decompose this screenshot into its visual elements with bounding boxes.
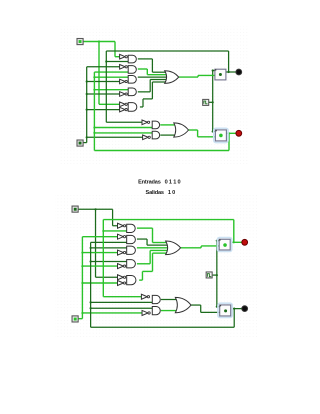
wire: [82, 282, 117, 284]
wire: [161, 299, 177, 301]
wire: [87, 81, 120, 83]
wire: [93, 72, 95, 150]
node junction: [212, 69, 214, 71]
AND gate A1.2: [128, 66, 136, 74]
AND gate A1.3: [128, 76, 136, 84]
wire: [91, 307, 153, 309]
LED on: [242, 239, 248, 245]
node junction: [93, 126, 95, 128]
wire: [141, 271, 143, 280]
wire: [213, 70, 215, 72]
node junction: [93, 132, 95, 134]
node junction: [81, 251, 83, 253]
wire: [161, 310, 177, 312]
wire: [160, 124, 175, 126]
wire: [153, 242, 168, 244]
inverter N2.2: [118, 234, 124, 239]
wire: [228, 51, 230, 72]
wire: [216, 241, 218, 307]
wire: [137, 247, 168, 249]
wire: [226, 132, 236, 134]
wire: [200, 246, 202, 248]
wire: [233, 220, 235, 243]
node junction: [93, 76, 95, 78]
node junction: [90, 301, 92, 303]
wire: [201, 311, 220, 313]
node junction: [212, 130, 214, 132]
input pin: [77, 140, 83, 146]
wire: [179, 76, 198, 78]
node junction: [90, 260, 92, 262]
node junction: [228, 71, 230, 73]
wire: [152, 71, 166, 73]
node junction: [212, 101, 214, 103]
AND gate A2.1: [127, 224, 136, 232]
wire: [150, 79, 167, 81]
wire: [81, 237, 83, 319]
wire: [87, 109, 120, 111]
clock: [206, 272, 212, 278]
wire: [94, 132, 152, 134]
wire: [113, 225, 118, 227]
OR gate OR2.2: [175, 297, 191, 312]
inverter N2.4: [118, 264, 124, 269]
node junction: [81, 312, 83, 314]
wire: [147, 74, 167, 76]
OR gate OR2.1: [166, 241, 181, 255]
wire: [105, 51, 107, 122]
wire: [142, 99, 144, 107]
input pin: [77, 39, 83, 45]
wire: [82, 312, 142, 314]
inverter N1.3: [120, 79, 126, 84]
wire: [138, 68, 148, 70]
wire: [83, 41, 115, 43]
wire: [139, 279, 142, 281]
wire: [152, 228, 154, 242]
wire: [151, 59, 153, 72]
wire: [146, 239, 148, 245]
flip-flop box: [214, 128, 228, 142]
wire: [201, 245, 219, 247]
wire: [94, 71, 128, 73]
node junction: [90, 307, 92, 309]
wire: [91, 260, 127, 262]
wire: [103, 219, 233, 221]
wire: [82, 252, 117, 254]
OR gate OR1.2: [174, 123, 189, 137]
inverter N1.5: [120, 102, 126, 107]
wire: [147, 244, 168, 246]
node junction: [86, 80, 88, 82]
wire: [142, 270, 152, 272]
node junction: [216, 306, 218, 308]
wire: [213, 131, 216, 133]
wire: [137, 263, 150, 265]
AND gate A1.6: [152, 121, 159, 129]
wire: [78, 318, 82, 320]
node junction: [216, 240, 218, 242]
wire: [149, 250, 151, 263]
wire: [160, 134, 175, 136]
wire: [197, 130, 199, 137]
AND gate A1.4: [128, 88, 136, 96]
canvas grid circuit 1: [60, 26, 248, 164]
node junction: [233, 241, 235, 243]
wire: [189, 129, 198, 131]
wire: [112, 209, 114, 225]
wire: [99, 103, 120, 105]
LED on: [236, 130, 242, 136]
AND gate A1.1: [128, 55, 136, 63]
wire: [87, 136, 143, 138]
svg-text:Entradas 0 1 1 0: Entradas 0 1 1 0: [138, 179, 180, 185]
node junction: [233, 308, 235, 310]
wire: [153, 252, 168, 254]
flip-flop box: [215, 69, 226, 80]
inverter N2.3: [118, 250, 124, 255]
AND gate A2.6: [152, 295, 160, 303]
wire: [95, 209, 97, 277]
wire: [197, 75, 199, 77]
wire: [191, 304, 201, 306]
node junction: [93, 89, 95, 91]
inverter N2.1: [118, 223, 124, 228]
wire: [198, 136, 216, 138]
inverter N1.8: [143, 135, 149, 140]
node junction: [81, 282, 83, 284]
wire: [103, 230, 126, 232]
wire: [150, 249, 168, 251]
node junction: [105, 60, 107, 62]
wire: [213, 274, 217, 276]
node junction: [86, 136, 88, 138]
node junction: [86, 93, 88, 95]
node junction: [98, 40, 100, 42]
OR gate OR1.1: [165, 71, 179, 84]
wire: [86, 67, 88, 143]
wire: [82, 265, 117, 267]
wire: [87, 93, 120, 95]
node junction: [86, 109, 88, 111]
wire: [94, 127, 152, 129]
AND gate A2.4: [127, 260, 136, 268]
wire: [90, 242, 92, 327]
wire: [78, 208, 112, 210]
wire: [94, 89, 128, 91]
wire: [146, 69, 148, 75]
AND gate A1.5: [128, 103, 137, 112]
wire: [226, 71, 236, 73]
wire: [106, 50, 228, 52]
inverter N2.5: [118, 275, 124, 280]
wire: [82, 236, 117, 238]
wire: [231, 308, 241, 310]
flip-flop box: [218, 303, 232, 317]
wire: [151, 82, 153, 99]
flip-flop box: [217, 238, 231, 252]
wire: [96, 276, 118, 278]
AND gate A1.7: [152, 131, 159, 139]
node junction: [102, 230, 104, 232]
inverter N1.4: [120, 92, 126, 97]
wire: [181, 247, 202, 249]
wire: [114, 42, 116, 57]
wire: [115, 56, 120, 58]
wire: [212, 71, 214, 132]
wire: [152, 81, 166, 83]
wire: [231, 241, 242, 243]
wire: [91, 326, 235, 328]
wire: [217, 240, 219, 242]
AND gate A2.3: [127, 246, 136, 254]
wire: [233, 309, 235, 328]
wire: [102, 220, 104, 297]
inverter N1.1: [120, 54, 126, 59]
wire: [138, 76, 167, 78]
wire: [198, 74, 215, 76]
wire: [94, 76, 128, 78]
wire: [228, 133, 230, 150]
wire: [91, 241, 127, 243]
wire: [200, 305, 202, 312]
inverter N2.7: [141, 294, 147, 299]
inverter N1.2: [120, 65, 126, 70]
AND gate A2.5: [127, 275, 136, 284]
wire: [91, 247, 127, 249]
wire: [140, 106, 143, 108]
AND gate A2.2: [127, 235, 136, 243]
wire: [106, 61, 128, 63]
input pin: [72, 316, 78, 322]
inverter N1.6: [120, 107, 126, 112]
wire: [209, 101, 213, 103]
wire: [138, 91, 150, 93]
clock: [203, 99, 209, 105]
wire: [91, 301, 153, 303]
LED off: [236, 69, 242, 75]
node junction: [90, 247, 92, 249]
canvas grid circuit 2: [55, 195, 258, 338]
wire: [103, 296, 141, 298]
wire: [137, 238, 147, 240]
inverter N2.8: [142, 310, 148, 315]
svg-text:Salidas 1 0: Salidas 1 0: [146, 190, 176, 196]
wire: [98, 42, 100, 105]
wire: [83, 142, 87, 144]
node junction: [81, 265, 83, 267]
inverter N1.7: [142, 120, 148, 125]
node junction: [216, 274, 218, 276]
AND gate A2.7: [152, 306, 160, 314]
node junction: [94, 208, 96, 210]
node junction: [228, 132, 230, 134]
wire: [152, 253, 154, 271]
wire: [137, 227, 153, 229]
wire: [138, 58, 153, 60]
wire: [106, 121, 142, 123]
wire: [217, 306, 220, 308]
wire: [143, 98, 152, 100]
wire: [87, 66, 120, 68]
wire: [94, 150, 229, 152]
input pin: [72, 206, 78, 212]
LED off: [242, 306, 248, 312]
wire: [149, 80, 151, 92]
inverter N2.6: [118, 281, 124, 286]
